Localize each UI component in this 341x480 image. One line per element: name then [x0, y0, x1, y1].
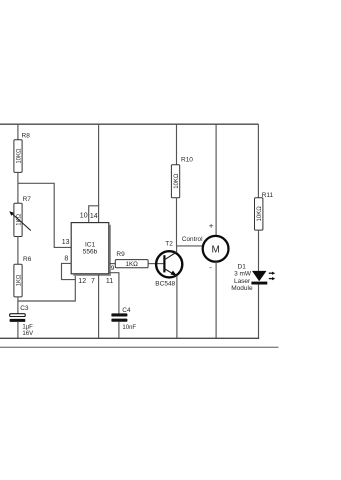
svg-text:D1: D1 — [238, 263, 247, 270]
svg-text:10nF: 10nF — [122, 325, 136, 331]
wire motor minus lead to ground rail — [215, 262, 217, 338]
svg-text:9: 9 — [111, 265, 115, 272]
wire pin 11 lead to C4 — [109, 273, 119, 314]
wire R8 top lead — [17, 124, 19, 140]
resistor R9 — [115, 251, 148, 268]
svg-text:7: 7 — [91, 278, 95, 285]
svg-text:C4: C4 — [122, 307, 131, 314]
svg-text:16V: 16V — [22, 331, 33, 337]
svg-text:T2: T2 — [165, 241, 173, 248]
wire C3 bottom to ground rail — [17, 322, 19, 338]
wire collector riser to control node — [176, 246, 178, 252]
svg-text:Control: Control — [182, 236, 203, 243]
wire R10 top lead — [176, 124, 178, 165]
wire R11 bottom to LED — [258, 230, 260, 271]
wire node R6/C3 junction to IC pin 12 — [18, 274, 75, 301]
svg-text:14: 14 — [90, 213, 98, 220]
svg-text:11: 11 — [106, 278, 113, 285]
wire node junction to IC pin 13 — [18, 183, 71, 247]
wire lower border line — [0, 346, 279, 348]
svg-text:C3: C3 — [20, 305, 29, 312]
svg-text:1µF: 1µF — [22, 325, 33, 331]
resistor R6 — [14, 256, 32, 297]
wire LED cathode to ground rail — [258, 285, 260, 339]
svg-text:12: 12 — [78, 278, 86, 285]
resistor R10 — [171, 156, 193, 197]
wire pin 8 loop to pin 12 net — [62, 263, 76, 279]
wire R10 bottom to control node — [176, 198, 178, 246]
wire R7 bottom to R6 top — [17, 237, 19, 265]
wire pin 9 lead — [109, 263, 116, 265]
svg-text:10KΩ: 10KΩ — [257, 206, 263, 222]
svg-text:10KΩ: 10KΩ — [174, 173, 180, 189]
svg-text:R11: R11 — [262, 192, 274, 199]
svg-text:R9: R9 — [116, 251, 125, 258]
svg-text:3 mW: 3 mW — [234, 271, 252, 278]
wire emitter to ground rail — [176, 276, 178, 338]
svg-text:-: - — [209, 263, 212, 272]
svg-text:10: 10 — [80, 213, 88, 220]
wire IC pin 14 riser to rail — [98, 124, 100, 206]
wire motor plus lead — [215, 124, 217, 236]
wire pin 7 to ground rail — [98, 274, 100, 338]
wire control line to motor — [177, 245, 203, 247]
transistor Q2 T2 BC548 — [155, 241, 182, 288]
wire C4 bottom to ground rail — [118, 322, 120, 338]
svg-text:+: + — [209, 221, 214, 230]
resistor R11 — [255, 192, 274, 230]
resistor R7 potentiometer — [9, 196, 31, 237]
svg-text:1KΩ: 1KΩ — [125, 261, 138, 268]
svg-text:R6: R6 — [23, 256, 32, 263]
svg-text:BC548: BC548 — [155, 281, 175, 288]
capacitor C4 — [111, 307, 136, 331]
wire top positive rail — [0, 123, 258, 125]
svg-text:13: 13 — [62, 239, 70, 246]
wire R6 bottom to C3 — [17, 297, 19, 314]
svg-text:R10: R10 — [181, 156, 193, 163]
svg-text:R7: R7 — [23, 196, 32, 203]
capacitor C3 — [10, 305, 34, 337]
wire bottom ground rail — [0, 337, 259, 339]
motor M servo — [203, 236, 229, 262]
svg-text:Module: Module — [231, 285, 253, 292]
svg-text:556b: 556b — [83, 249, 98, 256]
wire R11 riser from rail end — [257, 124, 259, 198]
diode D1 laser LED — [231, 263, 275, 292]
svg-text:Laser: Laser — [234, 278, 251, 285]
resistor R8 — [14, 132, 30, 172]
svg-text:8: 8 — [64, 255, 68, 262]
wire R8 bottom to R7 top — [17, 172, 19, 203]
svg-text:10KΩ: 10KΩ — [16, 148, 22, 164]
op-amp U1 IC1 556b — [71, 223, 111, 276]
wire pin 10 to pin 14 link — [89, 206, 99, 223]
svg-text:1KΩ: 1KΩ — [16, 274, 22, 286]
wire R9 to base — [148, 263, 163, 265]
svg-text:R8: R8 — [22, 132, 31, 139]
svg-text:IC1: IC1 — [85, 241, 96, 248]
svg-text:M: M — [212, 245, 220, 256]
